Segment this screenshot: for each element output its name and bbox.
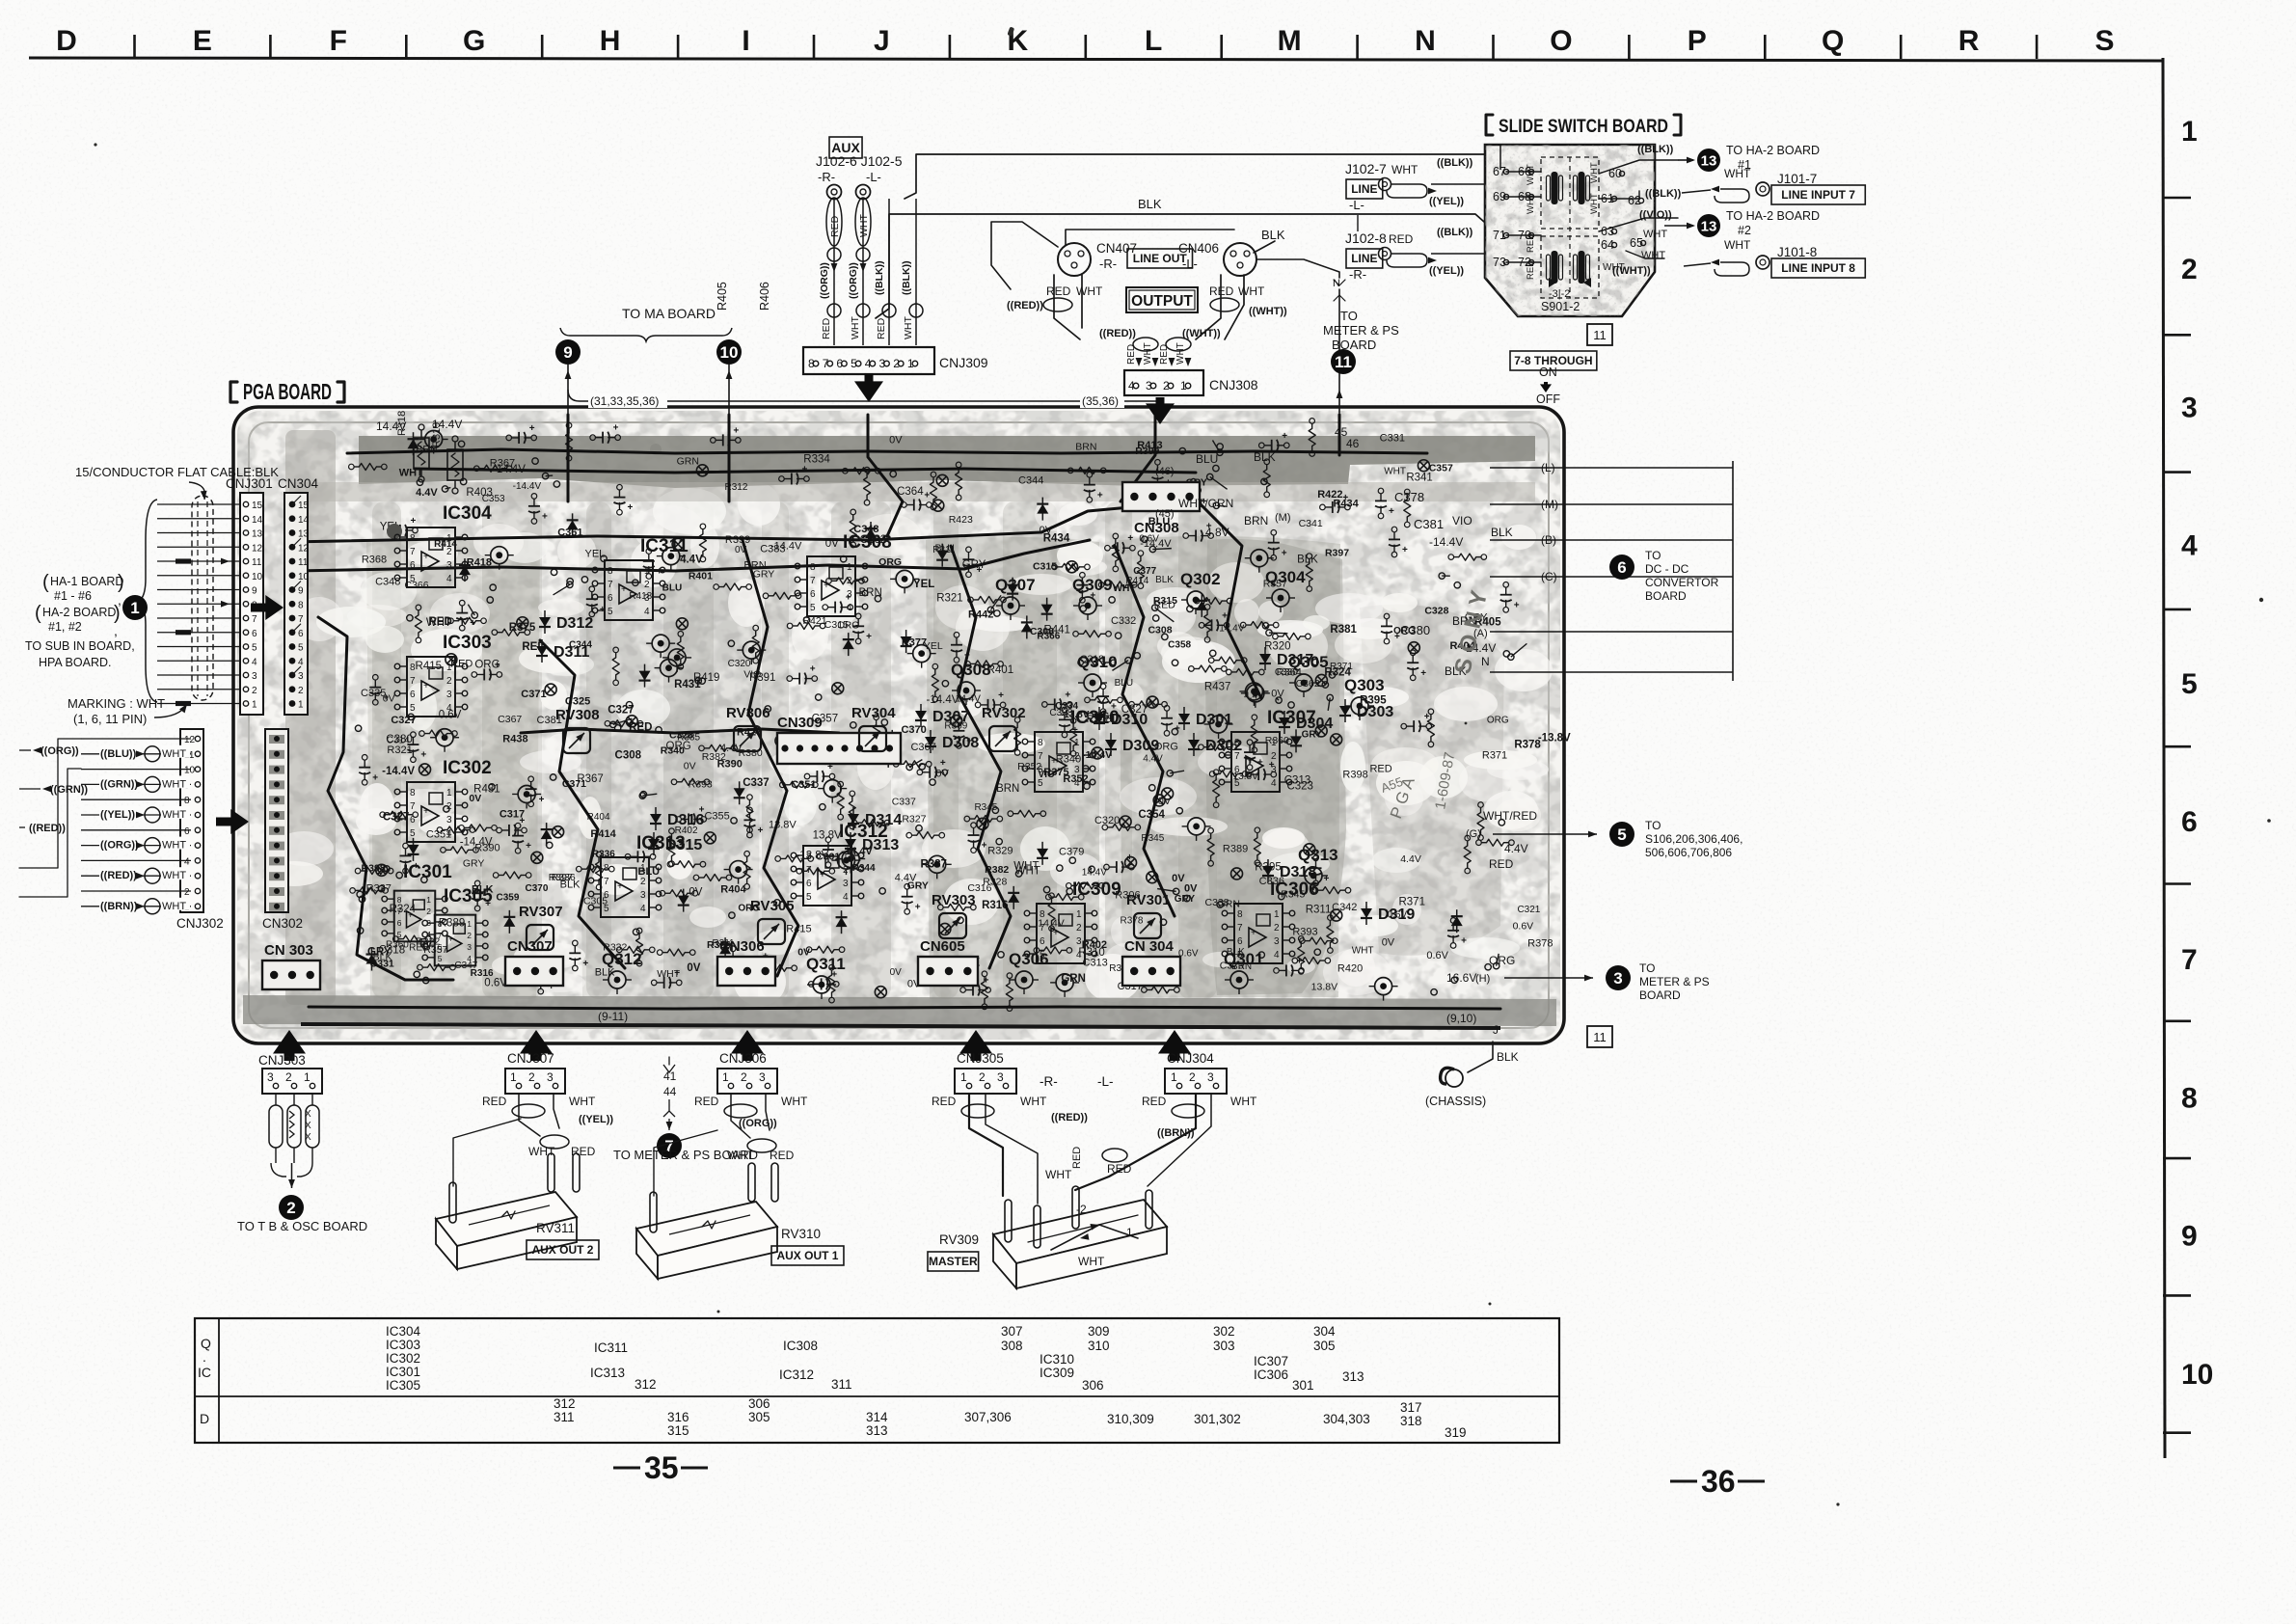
callout 3 (meter ps) (1446, 954, 1710, 1002)
diode D304 (1279, 711, 1333, 734)
svg-text:C359: C359 (496, 893, 519, 904)
svg-text:RV302: RV302 (982, 705, 1026, 721)
svg-text:10: 10 (298, 572, 310, 582)
svg-text:RV311: RV311 (536, 1221, 575, 1235)
svg-text:S106,206,306,406,: S106,206,306,406, (1645, 832, 1742, 846)
trimmer RV306 (726, 705, 770, 751)
svg-text:4: 4 (2181, 530, 2198, 562)
svg-text:C317: C317 (500, 809, 525, 821)
trimmer RV304 (851, 705, 896, 751)
svg-text:Q307: Q307 (995, 576, 1036, 594)
svg-text:WHT: WHT (1020, 1095, 1047, 1108)
diode D315 (648, 832, 702, 855)
svg-text:RV307: RV307 (519, 904, 563, 920)
svg-text:R420: R420 (1337, 962, 1363, 974)
svg-text:13: 13 (1701, 152, 1717, 169)
svg-text:D310: D310 (1111, 712, 1148, 728)
svg-text:R378: R378 (1527, 938, 1553, 950)
transistor Q306 (1009, 950, 1049, 994)
svg-text:5: 5 (410, 828, 416, 839)
svg-text:M: M (1278, 25, 1302, 57)
svg-text:WHT: WHT (162, 809, 186, 821)
svg-text:IC306: IC306 (1270, 880, 1319, 900)
svg-text:D316: D316 (667, 812, 704, 828)
7-8 THROUGH switch note (1510, 351, 1597, 406)
op-amp IC304 (394, 503, 492, 587)
svg-text:GRY: GRY (753, 569, 775, 581)
svg-text:2: 2 (184, 887, 190, 898)
transistor Q313 (1298, 846, 1338, 890)
svg-text:+: + (1461, 935, 1467, 946)
svg-text:2: 2 (1189, 1070, 1196, 1084)
svg-text:R398: R398 (1342, 769, 1367, 780)
svg-text:4: 4 (1271, 778, 1277, 789)
svg-text:CN 304: CN 304 (1124, 938, 1175, 955)
svg-text:5: 5 (810, 603, 816, 613)
svg-text:3: 3 (644, 593, 650, 604)
svg-text:IC311: IC311 (640, 536, 689, 556)
PGA BOARD title (230, 379, 344, 404)
jack J102-8 (1345, 215, 1484, 282)
svg-text:2: 2 (979, 1070, 986, 1084)
svg-text:+: + (1282, 548, 1287, 558)
svg-text:1: 1 (644, 566, 650, 577)
svg-text:2: 2 (298, 686, 304, 696)
diode D302 (1188, 733, 1242, 756)
svg-text:304: 304 (1313, 1324, 1336, 1339)
table D row entries (554, 1396, 1467, 1440)
svg-text:Q302: Q302 (1180, 570, 1221, 588)
svg-text:2: 2 (1074, 751, 1080, 762)
svg-text:310: 310 (1088, 1339, 1110, 1353)
callout 11 (top) (1331, 349, 1356, 374)
svg-text:R327: R327 (902, 814, 926, 826)
svg-text:RED: RED (482, 1095, 507, 1108)
transistor Q301 (1224, 950, 1264, 994)
svg-text:C335: C335 (361, 688, 386, 699)
svg-text:RED: RED (1046, 284, 1071, 298)
svg-text:IC312: IC312 (779, 1367, 814, 1382)
svg-text:8: 8 (608, 566, 613, 577)
svg-text:TO: TO (1340, 309, 1358, 323)
svg-text:R378: R378 (1121, 916, 1144, 927)
svg-text:2: 2 (1163, 379, 1170, 392)
svg-text:J101-8: J101-8 (1777, 245, 1817, 259)
svg-text:BRN: BRN (996, 783, 1019, 795)
svg-text:319: 319 (1445, 1425, 1467, 1440)
svg-text:R375: R375 (509, 622, 536, 634)
svg-text:4: 4 (446, 828, 452, 839)
J101-7 LINE INPUT 7 (1645, 167, 1865, 204)
svg-text:11: 11 (298, 557, 309, 568)
LINE OUT box (1127, 249, 1193, 268)
svg-text:14.4V: 14.4V (432, 418, 462, 431)
svg-text:8: 8 (410, 663, 416, 673)
svg-text:13: 13 (1701, 218, 1717, 234)
svg-text:WHT: WHT (1078, 1255, 1105, 1268)
callout 13 #1 (1637, 144, 1820, 172)
jack CN406 (1178, 241, 1256, 276)
svg-text:+: + (1297, 956, 1303, 966)
svg-text:WHT: WHT (1175, 342, 1186, 365)
svg-text:((BLK)): ((BLK)) (1437, 157, 1473, 169)
svg-text:WHT: WHT (1230, 1095, 1257, 1108)
svg-text:TO: TO (1639, 961, 1655, 975)
svg-text:8: 8 (1038, 738, 1043, 748)
thick wire routes (289, 415, 1500, 1009)
svg-text:C320: C320 (728, 659, 751, 669)
svg-text:GRY: GRY (463, 857, 485, 869)
svg-text:WHT: WHT (1015, 866, 1040, 878)
svg-text:315: 315 (667, 1423, 689, 1438)
svg-text:306: 306 (1082, 1378, 1104, 1393)
svg-text:R393: R393 (1292, 927, 1317, 938)
svg-text:HA-1 BOARD: HA-1 BOARD (50, 575, 123, 588)
svg-text:0V: 0V (1271, 688, 1284, 699)
svg-text:(M): (M) (1275, 512, 1291, 524)
svg-text:6: 6 (397, 918, 402, 928)
op-amp IC305 (422, 886, 493, 965)
arrow below CNJ308 (1146, 397, 1175, 424)
page number 36 (1670, 1464, 1765, 1499)
svg-text:7: 7 (438, 931, 443, 940)
svg-text:5: 5 (604, 904, 609, 914)
svg-text:R397: R397 (1325, 547, 1349, 558)
svg-text:CONVERTOR: CONVERTOR (1645, 576, 1719, 589)
svg-text:RED: RED (1526, 233, 1536, 253)
svg-text:((BLK)): ((BLK)) (1645, 188, 1682, 200)
svg-text:5: 5 (1234, 778, 1240, 789)
svg-text:WHT: WHT (781, 1095, 808, 1108)
svg-text:9: 9 (563, 343, 572, 362)
svg-text:3: 3 (640, 890, 646, 901)
svg-text:0V: 0V (1172, 873, 1185, 884)
svg-text:RED: RED (821, 317, 832, 339)
svg-text:-L-: -L- (866, 170, 881, 184)
svg-text:3: 3 (1274, 936, 1280, 947)
svg-text:+: + (733, 425, 739, 436)
jack J102-7 (1345, 157, 1484, 212)
switch contacts (1547, 172, 1592, 287)
svg-text:6: 6 (184, 826, 190, 837)
mounting hole 2 (650, 444, 662, 455)
svg-text:3: 3 (997, 1070, 1004, 1084)
svg-text:+: + (820, 870, 825, 880)
svg-text:WHT: WHT (162, 901, 186, 912)
svg-text:R320: R320 (1264, 640, 1291, 652)
svg-text:1: 1 (426, 895, 431, 905)
slide switch board outline (1485, 145, 1655, 316)
svg-text:3: 3 (847, 589, 852, 600)
connector CNJ303 (258, 1053, 322, 1105)
svg-text:+: + (1389, 506, 1394, 517)
svg-text:(CHASSIS): (CHASSIS) (1425, 1095, 1486, 1108)
svg-text:IC301: IC301 (386, 1365, 420, 1379)
svg-text:WHT: WHT (569, 1095, 596, 1108)
svg-text:6: 6 (1617, 558, 1626, 577)
svg-text:-R-: -R- (818, 170, 835, 184)
transistor Q312 (602, 950, 642, 994)
svg-text:8: 8 (806, 852, 812, 862)
svg-text:+: + (529, 423, 535, 434)
svg-text:RV303: RV303 (932, 892, 976, 908)
svg-text:+: + (1248, 756, 1254, 767)
svg-text:0.6V: 0.6V (484, 978, 507, 989)
op-amp IC306 (1222, 880, 1319, 963)
svg-text:13.8V: 13.8V (769, 819, 797, 830)
svg-text:10: 10 (2181, 1359, 2213, 1391)
svg-text:AUX OUT 2: AUX OUT 2 (531, 1243, 593, 1257)
svg-text:((RED)): ((RED)) (1051, 1112, 1088, 1123)
svg-text:314: 314 (866, 1410, 888, 1424)
svg-text:L: L (1145, 25, 1162, 57)
svg-text:CN304: CN304 (278, 476, 319, 491)
svg-text:Q: Q (1822, 25, 1844, 57)
svg-text:(G): (G) (1466, 828, 1481, 840)
svg-text:44: 44 (663, 1085, 677, 1098)
svg-text:D302: D302 (1205, 738, 1242, 754)
op-amp IC302 (394, 758, 492, 842)
svg-text:7: 7 (2181, 944, 2198, 976)
resistor R319 (431, 422, 463, 494)
svg-text:E: E (193, 25, 212, 57)
svg-text:R438: R438 (502, 734, 527, 745)
svg-text:1: 1 (130, 599, 139, 617)
15 conductor flat cable note (75, 465, 279, 500)
svg-text:C337: C337 (892, 796, 916, 807)
svg-text:7: 7 (397, 907, 402, 916)
connector CN605 (918, 938, 978, 986)
svg-text:D319: D319 (1378, 907, 1415, 923)
transistor Q307 (995, 576, 1036, 620)
svg-text:(B): (B) (1541, 533, 1556, 547)
svg-text:(35,36): (35,36) (1082, 394, 1119, 408)
svg-text:RED: RED (1489, 857, 1514, 871)
svg-text:G: G (463, 25, 485, 57)
svg-text:1: 1 (252, 700, 257, 711)
jack J102-6 (827, 185, 871, 200)
svg-text:2: 2 (1076, 923, 1082, 934)
svg-text:1: 1 (1180, 379, 1187, 392)
svg-text:-1: -1 (1122, 1226, 1133, 1239)
svg-text:((YEL)): ((YEL)) (579, 1114, 613, 1125)
svg-text:J102-8: J102-8 (1345, 230, 1387, 246)
svg-text:IC308: IC308 (783, 1339, 818, 1353)
svg-text:LINE INPUT 8: LINE INPUT 8 (1781, 261, 1855, 275)
trimmer RV308 (555, 707, 600, 753)
svg-text:+: + (408, 910, 413, 920)
svg-text:R401: R401 (689, 571, 713, 582)
diode D318 (1262, 859, 1316, 882)
svg-text:R336: R336 (592, 850, 615, 860)
box 11 lower right (1587, 1026, 1612, 1047)
svg-text:6: 6 (806, 879, 812, 889)
svg-text:D317: D317 (1277, 652, 1313, 668)
svg-text:4: 4 (644, 607, 650, 617)
svg-text:ORG: ORG (1487, 716, 1509, 726)
svg-text:WHT: WHT (1352, 945, 1374, 956)
callout 7 (657, 1133, 682, 1158)
svg-text:306: 306 (748, 1396, 770, 1411)
svg-text:Q306: Q306 (1009, 950, 1049, 968)
svg-text:R389: R389 (1223, 844, 1248, 855)
svg-text:VIO: VIO (1452, 514, 1472, 528)
arrow into CN302 (216, 809, 249, 834)
svg-text:CNJ309: CNJ309 (939, 355, 988, 370)
svg-text:1: 1 (722, 1070, 729, 1084)
BLK wire over output (991, 222, 1285, 289)
connector CNJ306 (694, 1051, 808, 1162)
svg-text:IC304: IC304 (386, 1324, 421, 1339)
svg-text:RV308: RV308 (555, 707, 600, 723)
svg-text:-R-: -R- (1040, 1074, 1058, 1089)
svg-text:C378: C378 (1394, 490, 1424, 504)
svg-text:R442: R442 (968, 609, 993, 621)
svg-text:6: 6 (410, 690, 416, 700)
svg-text:2: 2 (741, 1070, 747, 1084)
svg-text:3: 3 (446, 815, 452, 826)
svg-text:RED: RED (876, 317, 887, 339)
svg-text:RED: RED (1071, 1147, 1083, 1169)
svg-text:12: 12 (184, 735, 196, 745)
svg-text:2: 2 (286, 1199, 295, 1217)
svg-text:7: 7 (1040, 923, 1045, 934)
svg-text:METER & PS: METER & PS (1323, 323, 1399, 338)
svg-text:+: + (1394, 632, 1400, 642)
svg-text:307: 307 (1001, 1324, 1023, 1339)
svg-text:6: 6 (438, 942, 443, 952)
svg-text:TO: TO (1645, 549, 1661, 562)
svg-text:C351: C351 (791, 779, 816, 791)
svg-text:C328: C328 (1424, 606, 1448, 617)
svg-text:6: 6 (2181, 806, 2198, 838)
copper plane right slab (1205, 539, 1504, 995)
svg-text:#1 - #6: #1 - #6 (54, 589, 92, 603)
svg-text:S901-2: S901-2 (1541, 300, 1580, 313)
svg-text:IC306: IC306 (1254, 1367, 1288, 1382)
svg-text:(46): (46) (1155, 466, 1175, 477)
svg-text:((VIO)): ((VIO)) (1639, 209, 1672, 221)
svg-text:+: + (1097, 490, 1103, 501)
svg-text:R334: R334 (803, 453, 830, 465)
svg-text:+: + (1282, 431, 1287, 442)
svg-text:-14.4V: -14.4V (927, 694, 959, 706)
svg-text:1: 1 (1076, 909, 1082, 920)
svg-text:RED: RED (1389, 232, 1414, 246)
svg-text:3: 3 (759, 1070, 766, 1084)
svg-text:310,309: 310,309 (1107, 1412, 1154, 1426)
svg-text:(: ( (42, 572, 49, 593)
svg-text:R321: R321 (936, 593, 963, 605)
svg-text:RV306: RV306 (726, 705, 770, 721)
svg-text:13.8V: 13.8V (813, 830, 842, 842)
svg-text:1: 1 (1074, 738, 1080, 748)
diode D309 (1105, 733, 1159, 756)
svg-text:+: + (940, 758, 946, 769)
board bottom heavy bus (301, 1024, 1500, 1028)
svg-text:8: 8 (438, 919, 443, 929)
fork 41-44 (663, 1057, 677, 1130)
svg-text:WHT: WHT (858, 214, 870, 237)
svg-text:Q304: Q304 (1265, 568, 1306, 586)
svg-text:RV301: RV301 (1126, 892, 1171, 908)
svg-text:+: + (613, 423, 619, 434)
svg-text:6: 6 (1038, 765, 1043, 775)
svg-text:X: X (305, 1121, 311, 1131)
svg-text:4: 4 (1076, 950, 1082, 961)
svg-text:313: 313 (866, 1423, 888, 1438)
svg-text:): ) (114, 603, 121, 624)
jack CN407 (1058, 241, 1137, 276)
svg-text:RED: RED (1107, 1162, 1132, 1176)
svg-text:D315: D315 (665, 837, 702, 853)
svg-text:D301: D301 (1196, 712, 1232, 728)
connector CNJ304 (1097, 1051, 1257, 1139)
svg-text:WHT: WHT (162, 840, 186, 852)
svg-text:6: 6 (604, 890, 609, 901)
svg-text:+: + (1126, 853, 1132, 863)
svg-text:WHT: WHT (1526, 164, 1536, 185)
svg-text:((RED)): ((RED)) (100, 870, 137, 881)
svg-text:((BLK)): ((BLK)) (1437, 227, 1473, 238)
svg-text:((WHT)): ((WHT)) (1182, 328, 1221, 339)
switch S901-2 dashed frames (1541, 157, 1599, 298)
svg-text:RED: RED (1526, 260, 1536, 280)
svg-text:35: 35 (644, 1450, 679, 1485)
svg-text:WHT: WHT (162, 870, 186, 881)
svg-text:J101-7: J101-7 (1777, 172, 1817, 186)
svg-text:1: 1 (298, 700, 304, 711)
svg-text:8: 8 (410, 533, 416, 544)
svg-text:Q309: Q309 (1072, 576, 1113, 594)
arrow into CN304 (251, 595, 284, 620)
svg-text:R431: R431 (473, 784, 500, 796)
svg-text:R327: R327 (366, 882, 392, 894)
svg-text:2: 2 (426, 907, 431, 916)
svg-text:-14.4V: -14.4V (513, 481, 542, 492)
svg-text:6: 6 (836, 357, 843, 370)
svg-text:2: 2 (252, 686, 257, 696)
svg-text:1: 1 (1274, 909, 1280, 920)
svg-text:11: 11 (1593, 1030, 1607, 1044)
trimmer RV310 (slider) (636, 1130, 844, 1279)
trimmer RV307 (519, 904, 563, 950)
svg-text:36: 36 (1701, 1464, 1736, 1499)
svg-text:Q303: Q303 (1344, 676, 1385, 694)
svg-text:2: 2 (1274, 923, 1280, 934)
op-amp IC301 (382, 862, 452, 941)
svg-text:6: 6 (810, 589, 816, 600)
switch pin numbers (1493, 162, 1646, 313)
svg-text:Q310: Q310 (1077, 653, 1118, 671)
svg-text:5: 5 (298, 643, 304, 654)
wire from 10 into board (728, 365, 730, 415)
svg-text:307,306: 307,306 (964, 1410, 1012, 1424)
svg-text:2: 2 (467, 931, 472, 940)
wire from 9 into board (567, 365, 569, 415)
svg-text:+: + (621, 584, 627, 595)
svg-text:0.6V: 0.6V (1513, 920, 1534, 932)
svg-text:5: 5 (397, 930, 402, 939)
svg-text:8: 8 (397, 895, 402, 905)
right grid ruler (2163, 58, 2213, 1458)
svg-text:F: F (330, 25, 347, 57)
svg-text:6: 6 (410, 560, 416, 571)
svg-text:((ORG)): ((ORG)) (848, 262, 859, 299)
svg-text:J102-7: J102-7 (1345, 161, 1387, 176)
op-amp IC311 (592, 536, 689, 620)
svg-text:C366: C366 (404, 580, 428, 591)
